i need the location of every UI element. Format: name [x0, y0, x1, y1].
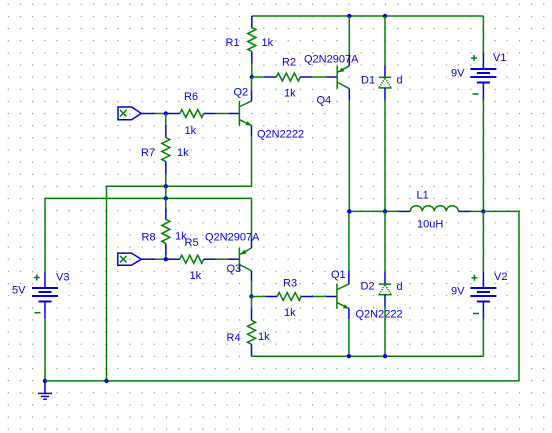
node junction top rail / Q4 emitter — [347, 14, 351, 18]
svg-text:1k: 1k — [190, 270, 202, 282]
wire L1 rail right loop to ground rail — [483, 211, 519, 381]
wire R7 node to wire B node — [165, 186, 167, 198]
node junction ground rail / wire A — [104, 379, 108, 383]
value d of D1 — [397, 75, 403, 87]
value 1k of R7 — [177, 147, 189, 159]
svg-text:Q4: Q4 — [317, 95, 332, 107]
node junction lower rail / Q1 emitter — [347, 354, 351, 358]
svg-text:Q2N2907A: Q2N2907A — [304, 54, 359, 66]
port X upper — [118, 107, 155, 120]
label L1 — [417, 190, 429, 202]
transistor Q3 (PNP Q2N2907A) — [228, 237, 251, 281]
svg-text:Q2N2907A: Q2N2907A — [205, 232, 260, 244]
resistor R6 — [168, 110, 216, 118]
plus mark of V3 — [34, 275, 40, 281]
node junction R7 bottom / wire A — [164, 184, 168, 188]
ground symbol AGND — [38, 381, 52, 399]
svg-text:d: d — [397, 281, 403, 293]
svg-text:Q2N2222: Q2N2222 — [356, 309, 403, 321]
source V1 (9V battery) — [470, 16, 496, 100]
minus mark of V3 — [35, 312, 41, 314]
resistor R2 — [264, 73, 312, 81]
node junction R1/R2/Q2 collector — [250, 75, 254, 79]
svg-text:R5: R5 — [185, 237, 199, 249]
wire Q2 emitter down — [251, 136, 253, 186]
wire Q2 collector to node — [251, 77, 253, 90]
wire node to R3 — [252, 296, 266, 298]
svg-text:D1: D1 — [361, 75, 375, 87]
resistor R7 — [162, 114, 170, 187]
label V1 — [493, 52, 506, 64]
source V3 (5V battery) — [32, 198, 58, 318]
node junction L1 rail / Q4-Q1 — [347, 209, 351, 213]
value 1k of R5 — [190, 270, 202, 282]
label Q2N2907A of Q4 — [304, 54, 359, 66]
value 1k of R2 — [284, 88, 296, 100]
svg-text:Q2N2222: Q2N2222 — [257, 129, 304, 141]
label R8 — [142, 232, 156, 244]
svg-text:Q3: Q3 — [227, 263, 242, 275]
svg-text:1k: 1k — [258, 331, 270, 343]
wire R5 to Q3 base — [216, 258, 229, 260]
label Q2N2222 of Q1 — [356, 309, 403, 321]
wire: top rail from R1 to V1 — [252, 15, 484, 17]
wire R6 to Q2 base — [216, 113, 229, 115]
transistor Q1 (NPN Q2N2222) — [326, 271, 349, 320]
label Q2 — [234, 87, 249, 99]
node junction R8 top / wire B — [164, 196, 168, 200]
svg-text:D2: D2 — [361, 281, 375, 293]
node junction top rail / D1 — [383, 14, 387, 18]
wire ground rail — [45, 380, 519, 382]
svg-text:R1: R1 — [226, 37, 240, 49]
wire V2 minus to lower rail — [482, 319, 484, 357]
wire D2 anode to lower rail — [384, 307, 386, 357]
svg-text:1k: 1k — [284, 307, 296, 319]
wire lower rail (V2 return) — [252, 355, 484, 357]
transistor Q2 (NPN Q2N2222) — [228, 90, 252, 136]
label R6 — [184, 91, 198, 103]
diode D2 — [378, 211, 391, 306]
value 1k of R8 — [175, 231, 187, 243]
wire port X to node — [155, 113, 168, 115]
node junction port/R6/R7 — [164, 111, 168, 115]
svg-text:V3: V3 — [56, 272, 69, 284]
value 1k of R1 — [262, 37, 274, 49]
label R2 — [282, 57, 296, 69]
diode D1 — [378, 16, 391, 100]
wire Q1 emitter to lower rail — [348, 319, 350, 356]
svg-text:1k: 1k — [262, 37, 274, 49]
minus mark of V2 — [473, 313, 479, 315]
transistor Q4 (PNP Q2N2907A) — [326, 55, 349, 100]
value 1k of R6 — [185, 125, 197, 137]
svg-text:d: d — [397, 75, 403, 87]
node junction lower rail / D2 — [383, 354, 387, 358]
value 10uH of L1 — [417, 219, 443, 231]
resistor R1 — [248, 16, 256, 64]
wire L1 to V2 node — [470, 210, 483, 212]
svg-text:V2: V2 — [494, 271, 507, 283]
port X lower — [118, 253, 155, 265]
svg-text:9V: 9V — [451, 68, 465, 80]
node junction ground / V3 — [43, 379, 47, 383]
wire A: Q2 emitter rail — [107, 186, 252, 381]
svg-text:R3: R3 — [283, 278, 297, 290]
wire R3 to Q1 base — [313, 296, 326, 298]
node junction L1 rail / D1-D2 — [383, 209, 387, 213]
resistor R5 — [168, 255, 216, 263]
label R1 — [226, 37, 240, 49]
label Q1 — [331, 269, 346, 281]
label Q2N2222 of Q2 — [257, 129, 304, 141]
svg-text:Q1: Q1 — [331, 269, 346, 281]
value 9V of V1 — [451, 68, 465, 80]
value 1k of R3 — [284, 307, 296, 319]
value 9V of V2 — [451, 286, 465, 298]
svg-text:10uH: 10uH — [417, 219, 443, 231]
node junction Q3 collector / R3 / R4 — [249, 294, 253, 298]
svg-text:Q2: Q2 — [234, 87, 249, 99]
svg-text:L1: L1 — [417, 190, 429, 202]
value 5V of V3 — [12, 285, 26, 297]
node junction port/R5/R8 — [164, 257, 168, 261]
label V2 — [494, 271, 507, 283]
label R7 — [141, 147, 155, 159]
resistor R4 — [248, 297, 256, 357]
wire top rail to Q4 emitter — [348, 16, 350, 55]
svg-text:R4: R4 — [227, 332, 241, 344]
label Q3 — [227, 263, 242, 275]
label D1 — [361, 75, 375, 87]
svg-text:R6: R6 — [184, 91, 198, 103]
svg-text:1k: 1k — [284, 88, 296, 100]
wire node to R2 — [252, 76, 264, 78]
svg-text:R8: R8 — [142, 232, 156, 244]
label R5 — [185, 237, 199, 249]
value d of D2 — [397, 281, 403, 293]
svg-text:1k: 1k — [185, 125, 197, 137]
wire R2 to Q4 base — [312, 76, 326, 78]
svg-text:5V: 5V — [12, 285, 26, 297]
resistor R8 — [162, 198, 170, 259]
wire V3 minus to ground node — [44, 319, 46, 381]
label V3 — [56, 272, 69, 284]
wire L1 rail to Q1 collector — [348, 211, 350, 270]
plus mark of V1 — [471, 55, 477, 61]
wire Q4 collector to L1 rail — [348, 100, 350, 211]
svg-text:V1: V1 — [493, 52, 506, 64]
resistor R3 — [265, 293, 313, 301]
label Q2N2907A of Q3 — [205, 232, 260, 244]
wire V1 minus to L1 rail — [482, 100, 484, 212]
label R3 — [283, 278, 297, 290]
wire lower port to node — [155, 258, 168, 260]
label R4 — [227, 332, 241, 344]
minus mark of V1 — [473, 93, 479, 95]
wire Q3 collector to node — [251, 282, 253, 297]
inductor L1 — [398, 206, 470, 212]
svg-text:9V: 9V — [451, 286, 465, 298]
source V2 (9V battery) — [470, 211, 496, 318]
label Q4 — [317, 95, 332, 107]
value 1k of R4 — [258, 331, 270, 343]
svg-text:R2: R2 — [282, 57, 296, 69]
node junction V1/V2/L1 — [481, 209, 485, 213]
label D2 — [361, 281, 375, 293]
wire D1 anode to L1 rail — [384, 100, 386, 211]
wire B: V3 plus rail to Q3 emitter — [45, 198, 252, 237]
wire R1 bottom to node — [251, 64, 253, 78]
wire L1 rail left segment — [349, 210, 398, 212]
svg-text:R7: R7 — [141, 147, 155, 159]
plus mark of V2 — [472, 275, 478, 281]
svg-text:1k: 1k — [177, 147, 189, 159]
